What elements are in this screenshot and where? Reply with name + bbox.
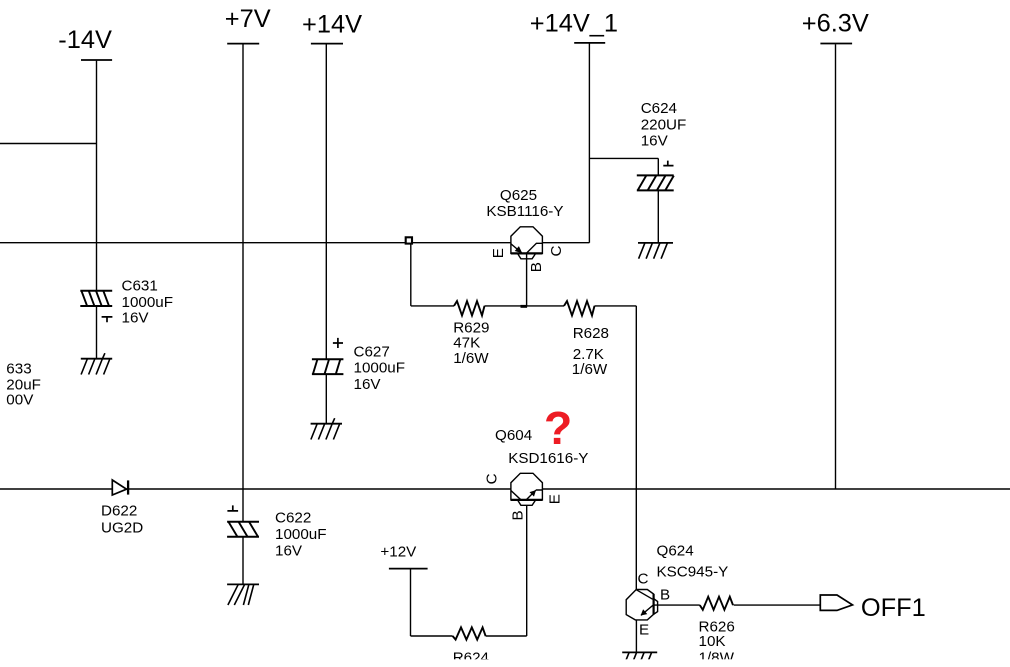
svg-text:C624: C624 <box>641 100 677 117</box>
svg-text:16V: 16V <box>354 376 382 393</box>
svg-text:C: C <box>483 473 500 484</box>
svg-text:1/6W: 1/6W <box>453 350 489 367</box>
svg-text:16V: 16V <box>275 543 303 560</box>
svg-text:E: E <box>639 622 649 639</box>
svg-text:10K: 10K <box>699 633 726 650</box>
svg-text:C: C <box>638 571 649 588</box>
svg-text:B: B <box>528 262 545 272</box>
svg-text:1/6W: 1/6W <box>572 361 608 378</box>
svg-text:KSC945-Y: KSC945-Y <box>657 564 729 581</box>
svg-text:Q625: Q625 <box>500 187 537 204</box>
svg-text:E: E <box>546 494 563 504</box>
svg-text:+7V: +7V <box>225 5 271 33</box>
svg-text:+6.3V: +6.3V <box>802 10 869 38</box>
svg-text:633: 633 <box>6 361 31 378</box>
svg-text:OFF1: OFF1 <box>861 594 926 622</box>
svg-text:-14V: -14V <box>58 26 112 54</box>
svg-text:+12V: +12V <box>380 543 417 560</box>
svg-text:220UF: 220UF <box>641 116 687 133</box>
svg-text:C627: C627 <box>354 344 390 361</box>
svg-text:B: B <box>660 587 670 604</box>
svg-text:1000uF: 1000uF <box>354 360 406 377</box>
svg-text:UG2D: UG2D <box>101 519 143 536</box>
svg-text:00V: 00V <box>6 391 34 408</box>
svg-text:16V: 16V <box>122 310 150 327</box>
svg-text:+14V: +14V <box>302 11 362 39</box>
svg-text:C: C <box>548 246 565 257</box>
svg-text:47K: 47K <box>453 334 480 351</box>
svg-text:1000uF: 1000uF <box>122 294 174 311</box>
svg-text:Q604: Q604 <box>495 427 532 444</box>
svg-text:?: ? <box>544 402 572 454</box>
svg-text:KSB1116-Y: KSB1116-Y <box>486 203 563 220</box>
svg-text:1000uF: 1000uF <box>275 526 327 543</box>
svg-text:16V: 16V <box>641 132 669 149</box>
svg-text:C631: C631 <box>122 278 158 295</box>
svg-text:D622: D622 <box>101 503 137 520</box>
svg-text:+14V_1: +14V_1 <box>530 10 618 38</box>
svg-text:E: E <box>490 248 507 258</box>
svg-text:R628: R628 <box>573 325 609 342</box>
svg-text:B: B <box>509 510 526 520</box>
svg-text:Q624: Q624 <box>657 542 694 559</box>
svg-text:C622: C622 <box>275 510 311 527</box>
